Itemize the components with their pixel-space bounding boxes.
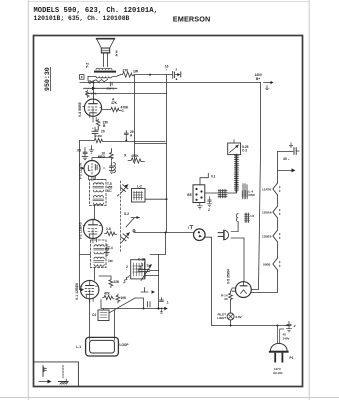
wire AVC left vertical <box>79 141 82 290</box>
svg-text:140V: 140V <box>283 337 290 341</box>
cap + gnd on bus <box>160 298 169 314</box>
svg-text:I: I <box>188 226 189 230</box>
bus B+ main (y82) <box>80 82 261 84</box>
wire V-3 to IF <box>93 178 95 181</box>
tube V-1 12BE6 converter <box>80 280 99 302</box>
svg-text:C-2: C-2 <box>242 149 247 153</box>
svg-text:L-2: L-2 <box>137 185 142 189</box>
svg-text:T-4: T-4 <box>108 246 113 250</box>
wire L-2 to x166.5 <box>145 198 167 200</box>
gnd below socket <box>197 203 202 210</box>
svg-text:B5: B5 <box>187 193 191 197</box>
svg-text:950:30: 950:30 <box>44 67 51 91</box>
wire bus to V-4 plate <box>93 83 95 97</box>
svg-text:47K: 47K <box>104 292 111 296</box>
svg-text:1W: 1W <box>133 70 139 74</box>
resistor 10MEG plate <box>98 149 116 173</box>
filament 12AT6 <box>262 183 280 195</box>
svg-text:+: + <box>92 126 94 130</box>
socket strip B-5 <box>187 185 204 203</box>
capacitor + ground 0.05 <box>77 146 94 160</box>
resistor R (270 ohm) output B+ <box>121 69 139 78</box>
wire vertical x166.5 <box>166 75 168 233</box>
filament 12BA6 <box>262 206 280 218</box>
label T-2 <box>86 63 90 68</box>
loop antenna L-1 <box>76 337 129 356</box>
svg-text:V-4 50B5: V-4 50B5 <box>78 102 82 117</box>
svg-text:AC-DC: AC-DC <box>273 371 283 375</box>
interlock plug P-1 <box>218 230 244 239</box>
wire switch bus y232 <box>134 232 194 234</box>
svg-text:2-8: 2-8 <box>106 227 111 231</box>
resistor diagonal below T-3 <box>124 276 130 284</box>
pilot light I-2 <box>217 302 241 321</box>
svg-text:C: C <box>122 109 125 113</box>
wire vertical x134 <box>134 75 136 161</box>
tube V-2 12BA6 IF amp <box>83 219 103 243</box>
osc coil T-3 box <box>126 260 151 279</box>
legend chassis gnd symbol <box>62 366 64 378</box>
AC plug <box>269 343 294 375</box>
svg-text:12BA6: 12BA6 <box>262 211 272 215</box>
wire B+ down to rectifier <box>251 151 260 290</box>
svg-text:T-5455KC: T-5455KC <box>107 182 113 193</box>
svg-text:C-1B: C-1B <box>138 258 146 262</box>
B+ corner / labels <box>255 73 274 151</box>
svg-text:LIGHT: LIGHT <box>217 316 226 320</box>
IF transformer T-4 shield box <box>91 240 114 268</box>
svg-text:L5: L5 <box>251 214 255 218</box>
svg-text:S-2: S-2 <box>124 212 129 216</box>
phono jack I-1 <box>188 226 205 241</box>
wire V-3 plate link y143.3 <box>135 143 167 145</box>
vertical x158 <box>158 255 160 309</box>
legend B- symbol <box>42 366 44 377</box>
svg-text:12BE6: 12BE6 <box>262 235 272 239</box>
on-off switch SW-1 on volume control <box>89 79 115 90</box>
output transformer T-2 <box>88 68 121 78</box>
svg-text:.1: .1 <box>166 301 169 305</box>
svg-text:P1: P1 <box>290 356 294 360</box>
wire cathode bottom <box>95 127 98 130</box>
title text <box>34 7 158 22</box>
stock number 950:30 <box>44 67 51 91</box>
vertical x165.3 drop <box>150 233 166 255</box>
interlock coil L-5 <box>236 213 254 282</box>
wire voice coil to transformer <box>104 53 108 67</box>
svg-text:1st: 1st <box>108 259 114 263</box>
resistor cluster right of V-1 <box>103 292 115 300</box>
heater chain top <box>278 143 300 161</box>
tube V-4 50B5 output <box>83 97 102 123</box>
svg-text:2.2M: 2.2M <box>95 134 102 138</box>
tuning gang osc section C-1B <box>138 258 159 281</box>
wire T-5 to V-2 <box>94 205 96 219</box>
capacitor 25 <box>124 130 133 140</box>
svg-text:V-3 12AT6: V-3 12AT6 <box>79 163 83 180</box>
AVC bus y140 <box>80 134 166 143</box>
resistor 150 cathode <box>96 119 108 128</box>
svg-text:A: A <box>130 134 133 138</box>
resistor R-14 33ohm <box>221 289 232 302</box>
wire x141.7 <box>135 298 144 309</box>
volume pot wiper <box>84 87 118 98</box>
svg-text:10K: 10K <box>121 296 128 300</box>
svg-text:40: 40 <box>283 157 287 161</box>
filament 12BE6 <box>262 230 280 242</box>
svg-text:V-1 12BE6: V-1 12BE6 <box>75 283 79 300</box>
resistor 10K <box>116 294 127 303</box>
svg-text:.05: .05 <box>77 149 82 153</box>
cap + gnd V-3 cathode <box>104 162 115 174</box>
svg-text:12AT6: 12AT6 <box>262 188 271 192</box>
bus AVC (y94) <box>86 93 167 95</box>
filament 50B5 <box>263 258 280 270</box>
wire T-3 right to x158 <box>145 275 159 277</box>
tube V-5 35W4 rectifier <box>232 282 251 298</box>
wire bus B+ upper <box>134 74 172 76</box>
legend box <box>34 362 79 387</box>
label V-4 50B5 <box>78 102 82 117</box>
svg-text:+: + <box>288 157 290 161</box>
wire AVC into T-4 <box>80 254 91 256</box>
svg-text:.2: .2 <box>293 324 296 328</box>
wire transformer left down <box>87 76 89 80</box>
svg-text:EMERSON: EMERSON <box>173 15 211 24</box>
cap + gnd line cord <box>286 322 296 332</box>
svg-text:L-1: L-1 <box>76 345 81 349</box>
resistor 22K osc grid <box>99 276 120 288</box>
resistor X 470K <box>124 154 145 164</box>
trimmer box C-2 <box>228 140 249 155</box>
resistor 47K screen <box>102 98 129 114</box>
trimmer C-7 <box>118 185 129 197</box>
wire T-4 to V-1 <box>94 268 96 281</box>
wire socket top / 0.1 label <box>200 173 208 185</box>
svg-text:B: B <box>103 124 106 128</box>
diagonal wire to osc <box>109 298 135 313</box>
svg-text:V-5 35W4: V-5 35W4 <box>227 269 231 284</box>
heater chain vertical <box>251 152 277 293</box>
svg-text:22K: 22K <box>114 280 121 284</box>
IF transformer T-5 shield box <box>90 180 107 206</box>
svg-text:LOOP: LOOP <box>120 343 130 347</box>
B- arrow <box>278 168 296 172</box>
svg-text:C4: C4 <box>92 313 96 317</box>
terminal box <box>80 75 85 80</box>
bus y325.4 <box>212 325 287 327</box>
svg-text:T-2: T-2 <box>86 63 90 68</box>
junction dot <box>149 74 151 76</box>
svg-text:6-8V: 6-8V <box>236 315 242 319</box>
svg-text:120101B; 635, Ch. 120108B: 120101B; 635, Ch. 120108B <box>34 15 130 22</box>
label V-3 12AT6 <box>79 163 83 180</box>
connector arrow (output to 11.5V tap) <box>165 65 181 80</box>
capacitor 20 cathode <box>92 126 105 137</box>
wire jack to x211.4 <box>204 237 212 325</box>
coil hatch block L-3 <box>205 190 237 198</box>
svg-text:B+: B+ <box>256 77 260 81</box>
svg-text:+: + <box>166 68 168 72</box>
gnd arrow near gang <box>141 288 155 294</box>
coil L-4 <box>242 184 256 199</box>
wire loop right lead <box>114 310 116 338</box>
svg-text:270: 270 <box>123 69 129 73</box>
svg-text:V-2 12BA6: V-2 12BA6 <box>79 222 83 239</box>
svg-text:33: 33 <box>224 297 228 301</box>
padder box C-4 <box>92 310 109 321</box>
ground right <box>90 146 94 154</box>
svg-text:2: 2 <box>208 208 210 212</box>
svg-text:2: 2 <box>126 265 128 269</box>
label V-5 35W4 <box>227 269 231 284</box>
cap + gnd V-2 cathode <box>105 245 110 256</box>
wire V-1 grid to loop <box>89 299 91 338</box>
svg-text:0.1: 0.1 <box>211 175 216 179</box>
speaker SP <box>97 39 115 53</box>
svg-text:50B5: 50B5 <box>263 263 271 267</box>
svg-text:54: 54 <box>116 50 118 57</box>
osc coil winding column <box>234 155 238 192</box>
bus y315.5 <box>101 300 164 311</box>
svg-text:2: 2 <box>176 68 178 72</box>
label V-2 12BA6 <box>79 222 83 239</box>
band switch lever <box>124 212 140 232</box>
schematic frame <box>34 36 303 387</box>
resistor 2-8 IF grid <box>105 227 117 236</box>
svg-text:20: 20 <box>101 130 105 134</box>
cap + gnd right of socket <box>207 197 211 213</box>
svg-text:47K: 47K <box>111 101 118 105</box>
svg-text:MEG: MEG <box>98 155 106 159</box>
AC plug wires <box>278 326 284 344</box>
gang dashed line <box>120 181 122 252</box>
svg-text:OSC: OSC <box>249 193 256 197</box>
label V-1 12BE6 <box>75 283 79 300</box>
svg-text:MODELS 590, 623, Ch. 120101A,: MODELS 590, 623, Ch. 120101A, <box>34 7 158 15</box>
coil det load <box>114 162 116 172</box>
svg-text:X: X <box>124 154 127 158</box>
tube V-3 12AT6 det/AF <box>81 158 111 182</box>
svg-text:470K: 470K <box>131 154 139 158</box>
oscillator coil box L-2 <box>132 185 146 203</box>
trimmer C-8 <box>121 233 130 243</box>
